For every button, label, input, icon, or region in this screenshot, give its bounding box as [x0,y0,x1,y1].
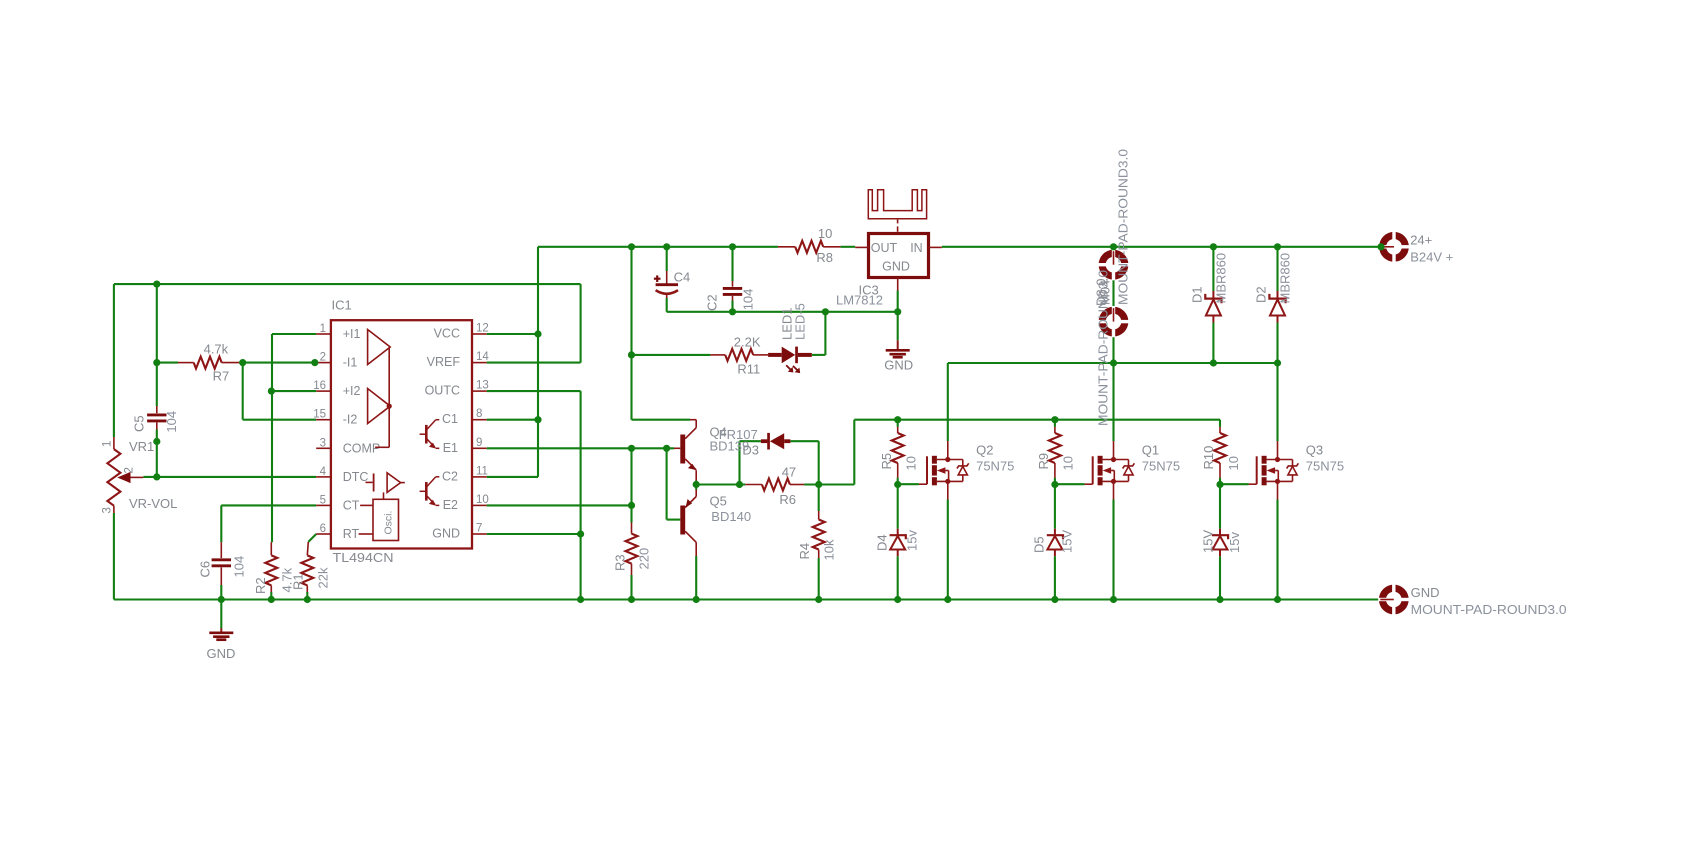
wire pin VREF [487,362,581,364]
svg-text:15v: 15v [1227,532,1242,553]
capacitor C2 plates [723,287,742,290]
capacitor C5 plates [147,413,166,416]
svg-text:GND: GND [882,260,910,274]
svg-text:7: 7 [476,523,482,535]
svg-text:C4: C4 [674,269,691,284]
wire Q5 base [667,519,681,521]
svg-text:75N75: 75N75 [1142,458,1180,473]
svg-text:12: 12 [476,323,489,335]
IC1 pin 1 +I1 [316,333,331,335]
wire pin +I2 [272,390,316,392]
wire pin GND [487,533,581,535]
svg-text:R10: R10 [1201,446,1216,470]
svg-text:10: 10 [818,226,832,241]
node wiper [153,473,160,480]
wire D4 top [897,485,899,529]
svg-text:15V: 15V [1060,530,1075,553]
wire up to gate rail [853,420,855,485]
VR1 wiper arrow [117,472,130,483]
node Q2 gate [894,481,901,488]
svg-text:R1: R1 [291,573,306,590]
zener diode D4 15v [897,529,899,536]
svg-text:22k: 22k [316,567,331,588]
node D4 ground [894,596,901,603]
wire D3 anode side [790,440,818,442]
wire R8 to OUT [840,246,855,248]
node VCC [534,330,541,337]
resistor R9 10 [1054,427,1056,433]
wire R1 bottom [306,592,308,600]
wire between mount pads [1112,279,1114,307]
wire pin C2 [487,476,538,478]
svg-text:Q5: Q5 [710,494,727,509]
node D5 ground [1051,596,1058,603]
IC1 pin 6 RT [316,533,331,535]
svg-text:C1: C1 [442,412,458,426]
svg-text:24+: 24+ [1410,233,1432,248]
svg-text:2.2K: 2.2K [734,335,761,350]
diode D3 FR107 [761,433,791,450]
capacitor C4 (polarized) [666,271,668,285]
svg-text:10: 10 [1061,456,1076,470]
node -I1 pin [311,359,318,366]
svg-text:OUTC: OUTC [425,384,460,398]
svg-text:IN: IN [910,241,923,255]
node R2 ground [268,596,275,603]
mounting pad 2 MOUNT-PAD-ROUND3.0 [1099,307,1129,337]
node Q3 gate [1216,481,1223,488]
capacitor C6 plates [212,558,231,561]
svg-text:BD140: BD140 [711,509,751,524]
wire LED cathode [812,354,826,356]
svg-text:MBR860: MBR860 [1213,253,1228,304]
transistor Q1 75N75 [1085,441,1135,500]
svg-text:47: 47 [782,465,796,480]
wire R5 top [897,420,899,427]
svg-text:R11: R11 [737,362,760,377]
svg-text:MBR860: MBR860 [1278,253,1293,304]
IC1 comparator 2 [368,389,391,424]
node E2 [628,502,635,509]
wire OUTC/GND column [580,391,582,599]
svg-text:Q2: Q2 [976,443,993,458]
wire pin VCC [487,333,538,335]
wire pin C1 [487,419,538,421]
svg-text:2: 2 [124,467,136,473]
node R7 right [239,359,246,366]
wire R9 bottom [1054,478,1056,485]
node R7 left [153,359,160,366]
svg-text:GND: GND [884,357,913,372]
node GND rail [577,596,584,603]
ground symbol GND 1 [220,628,222,633]
node LED return [822,308,829,315]
wire C5 column lower [156,430,158,477]
wire Q1 drain [1112,363,1114,441]
svg-text:R7: R7 [213,369,230,384]
svg-text:14: 14 [476,351,489,363]
terminal pad 24+ / B24V+ [1379,232,1409,262]
transistor Q3 75N75 [1249,441,1299,500]
wire R9 top [1054,420,1056,427]
node D6 ground [1216,596,1223,603]
svg-text:9: 9 [476,437,482,449]
node C1 [534,416,541,423]
node E1 [628,445,635,452]
wire Q1 gate [1055,483,1085,485]
wire R7 to pin -I1 [243,362,315,364]
resistor R7 4.7k [194,357,222,369]
wire to GND symbol [220,600,222,629]
svg-text:8: 8 [476,408,482,420]
svg-text:10: 10 [904,456,919,470]
wire CT [221,504,316,506]
svg-text:5: 5 [320,494,326,506]
wire R6 right [804,483,854,485]
wire R4 bottom [818,558,820,600]
node pads column [1110,243,1117,250]
wire GND net of regulator [667,311,898,313]
resistor R6 47 [762,479,790,491]
svg-text:D1: D1 [1189,286,1204,303]
svg-text:+I2: +I2 [343,384,361,398]
LED1 LED-5 [768,347,812,374]
IC1 pin 9 E1 [472,447,487,449]
IC1 pin 13 OUTC [472,390,487,392]
Q1 drain junction [1111,457,1116,462]
node R4 ground [815,596,822,603]
capacitor C5 104 [156,406,158,413]
mounting pad 1 MOUNT-PAD-ROUND3.0 [1099,250,1129,280]
svg-text:Q3: Q3 [1306,443,1323,458]
diode D2 MBR860 [1277,291,1279,299]
svg-text:10: 10 [1226,456,1241,470]
wire R2 bottom [270,592,272,600]
wire E1 to Q4 base [487,447,674,449]
node 7812 GND [894,308,901,315]
wire to GND symbol 2 [897,312,899,341]
wire to pin -I2 [243,419,317,421]
wire VREF up [580,284,582,363]
node D1 bottom [1210,359,1217,366]
wire R10 bottom [1219,478,1221,485]
svg-text:LED-5: LED-5 [793,303,808,340]
node R5 top [894,416,901,423]
wire VR1 pin3 to ground rail [113,513,115,600]
node C4 [663,243,670,250]
svg-text:GND: GND [432,527,460,541]
wire driver output [696,483,745,485]
IC1 comparator output to COMP [388,348,390,447]
transistor Q2 75N75 [919,441,969,500]
wire pin +I1 [272,333,316,335]
wire D3 left branch [738,441,740,484]
wire supply column to Q4 collector [630,247,632,420]
node Q1 gate [1051,481,1058,488]
svg-text:10: 10 [476,494,489,506]
svg-text:C2: C2 [442,469,458,483]
wire C4 top [666,247,668,271]
wire R5 bottom [897,478,899,485]
wire R11 left [632,354,711,356]
wire D3 cathode side [740,440,761,442]
wire Q2 source [947,500,949,600]
IC1 pin 10 E2 [472,504,487,506]
node GND pin [577,530,584,537]
transistor Q4 BD139 [674,420,697,481]
node 24+ pad [1377,243,1384,250]
node drain rail / pads [1110,359,1117,366]
IC1 comparator 1 [368,330,391,365]
Q3 drain junction [1275,457,1280,462]
wire to mount pad 1 [1112,247,1114,251]
transistor Q5 BD140 [680,490,696,557]
svg-text:C2: C2 [705,294,720,311]
node Q5 ground [693,596,700,603]
op-amp U IC1 TL494CN body [331,320,472,548]
wire VR1 wiper to DTC [143,476,316,478]
capacitor C6 104 [220,542,222,558]
wire E1/E2/R3 column [630,448,632,522]
voltage regulator IC3 LM7812 [869,234,929,278]
svg-text:LM7812: LM7812 [836,293,883,308]
wire drain rail [948,362,1278,364]
wire ground rail [114,598,1379,600]
node R1 ground [304,596,311,603]
Q2 source junction [945,479,950,484]
node +12V rail / driver column [628,243,635,250]
resistor R8 10 [795,241,823,253]
wire mount pad to drain rail [1112,336,1114,363]
svg-text:220: 220 [637,548,652,570]
node Q4 base [663,445,670,452]
svg-text:R8: R8 [816,250,833,265]
svg-text:E1: E1 [443,441,458,455]
svg-text:R5: R5 [879,453,894,470]
heatsink above IC3 [868,190,926,219]
node Q1 source ground [1110,596,1117,603]
C4 plus sign [654,278,661,280]
wire pin OUTC [487,390,581,392]
svg-text:1: 1 [102,441,114,447]
wire Q3 drain [1276,363,1278,441]
svg-text:RT: RT [343,527,360,541]
svg-text:R6: R6 [779,492,796,507]
svg-text:VCC: VCC [434,327,460,341]
wire D2 bottom [1276,323,1278,364]
IC1 pin 11 C2 [472,476,487,478]
node D2 [1274,243,1281,250]
wire D4 bottom [897,556,899,599]
wire C6 top [220,505,222,542]
resistor R1 22k [307,542,308,555]
node Q3 source ground [1274,596,1281,603]
node Q2 source ground [944,596,951,603]
svg-text:VR1: VR1 [129,439,154,454]
svg-text:15v: 15v [905,530,920,551]
IC1 pin 7 GND [472,533,487,535]
svg-text:D2: D2 [1254,286,1269,303]
wire D5 bottom [1054,556,1056,599]
wire D1 bottom [1212,323,1214,364]
svg-text:16: 16 [313,380,326,392]
svg-text:3: 3 [320,437,326,449]
svg-text:OUT: OUT [871,241,898,255]
wire C4 bottom [666,298,668,312]
node C2 bottom [729,308,736,315]
resistor R11 2.2K [725,349,753,361]
resistor R5 10 [897,427,899,433]
svg-text:104: 104 [164,411,179,433]
wire D6 bottom [1219,556,1221,599]
svg-text:DTC: DTC [343,470,369,484]
wire R4 top [818,485,820,512]
wire Q5 collector to ground [695,556,697,600]
node D3 left [736,481,743,488]
svg-text:C6: C6 [198,561,213,578]
ground symbol GND 2 [897,340,899,350]
svg-text:E2: E2 [443,498,458,512]
wire +12V rail [538,246,778,248]
svg-text:6: 6 [320,523,326,535]
svg-text:75N75: 75N75 [1306,458,1344,473]
node R3 ground [628,596,635,603]
svg-text:11: 11 [476,465,488,477]
diode D1 MBR860 [1212,291,1214,299]
IC1 DTC input symbol [366,481,373,483]
node R9 top [1051,416,1058,423]
node C2 [729,243,736,250]
node VREF/C5 [153,281,160,288]
svg-text:MOUNT-PAD-ROUND3.0: MOUNT-PAD-ROUND3.0 [1411,602,1567,617]
wire gate rail [854,419,1220,421]
svg-text:VREF: VREF [427,355,461,369]
comparator output junction [387,404,392,409]
svg-text:-I1: -I1 [343,356,358,370]
svg-text:COMP: COMP [343,441,381,455]
wire VREF rail [114,283,581,285]
node D1 [1210,243,1217,250]
svg-text:FR107: FR107 [719,427,758,442]
wire +I1/+I2/R2 column [271,334,273,542]
wire 7812 GND pin [897,291,899,312]
svg-text:VR-VOL: VR-VOL [129,496,177,511]
resistor R4 10k [818,511,820,520]
Q1 source junction [1111,479,1116,484]
heatsink thermal dashes [897,220,899,224]
wire C2 bottom [731,301,733,312]
svg-text:D4: D4 [875,534,890,551]
svg-text:CT: CT [343,498,360,512]
wire D3 right branch [818,441,820,484]
svg-text:D5: D5 [1032,536,1047,553]
wire Q5 base column [666,448,668,519]
node +I2 [268,388,275,395]
wire R3 bottom [630,575,632,600]
svg-text:1: 1 [320,323,326,335]
svg-text:4.7k: 4.7k [204,342,229,357]
wire Q3 source [1276,500,1278,600]
svg-text:10k: 10k [822,539,837,560]
svg-text:R4: R4 [797,543,812,560]
node D3 right [815,481,822,488]
wire C2 top [731,247,733,281]
IC1 oscillator block [373,499,399,540]
svg-text:GND: GND [1411,585,1440,600]
svg-text:104: 104 [232,556,247,578]
wire Q2 drain [947,363,949,441]
svg-text:4: 4 [320,466,327,478]
zener diode D6 15V [1219,529,1221,536]
svg-text:MOUNT-PAD-ROUND3.0: MOUNT-PAD-ROUND3.0 [1116,149,1131,305]
wire RT diagonal [308,534,316,542]
resistor R3 220 [631,523,633,534]
wire VCC column [537,247,539,477]
node D2 bottom [1274,359,1281,366]
svg-text:13: 13 [476,380,489,392]
svg-text:15V: 15V [1200,530,1215,553]
Q3 source junction [1275,479,1280,484]
IC1 pin 15 -I2 [316,419,331,421]
terminal pad GND [1379,585,1409,615]
IC1 output transistor 2 [420,477,440,506]
IC1 pin 14 VREF [472,362,487,364]
IC1 pin 12 VCC [472,333,487,335]
svg-text:IC1: IC1 [332,298,352,313]
svg-text:MOUNT-PAD-ROUND3.0: MOUNT-PAD-ROUND3.0 [1096,270,1111,426]
node C6 ground [218,596,225,603]
zener diode D5 15V [1054,529,1056,536]
node driver out [693,481,700,488]
capacitor C2 104 [732,281,734,287]
svg-text:+I1: +I1 [343,327,361,341]
wire D2 top [1276,247,1278,291]
wire R7 left [157,362,178,364]
svg-text:104: 104 [741,289,756,311]
IC1 pin 3 COMP [316,447,331,449]
svg-text:GND: GND [207,646,236,661]
wire Q2 gate [898,483,919,485]
svg-text:15: 15 [313,409,326,421]
wire LED up [824,312,826,355]
svg-text:D3: D3 [742,443,759,458]
IC1 pin 2 -I1 [316,362,331,364]
wire driver emitters [695,481,697,490]
wire E2 [487,504,632,506]
wire Q1 source [1112,500,1114,600]
resistor R10 10 [1219,427,1221,433]
svg-text:R2: R2 [253,577,268,594]
svg-text:2: 2 [320,352,326,364]
wire D1 top [1212,247,1214,291]
potentiometer VR1 VR-VOL [113,437,115,449]
svg-text:-I2: -I2 [343,413,358,427]
wire D5 top [1054,485,1056,529]
svg-text:Osci.: Osci. [383,511,395,535]
svg-text:C5: C5 [132,415,147,432]
svg-text:R9: R9 [1036,453,1051,470]
node C5 bottom [153,438,160,445]
svg-text:B24V +: B24V + [1410,250,1453,265]
IC1 pin 5 CT [316,504,331,506]
wire -I1 to -I2 column [242,363,244,420]
svg-text:75N75: 75N75 [976,458,1014,473]
Q2 drain junction [945,457,950,462]
IC1 pin 16 +I2 [316,390,331,392]
IC1 pin 8 C1 [472,419,487,421]
wire left column to VR1 [113,284,115,437]
node R11 [628,351,635,358]
